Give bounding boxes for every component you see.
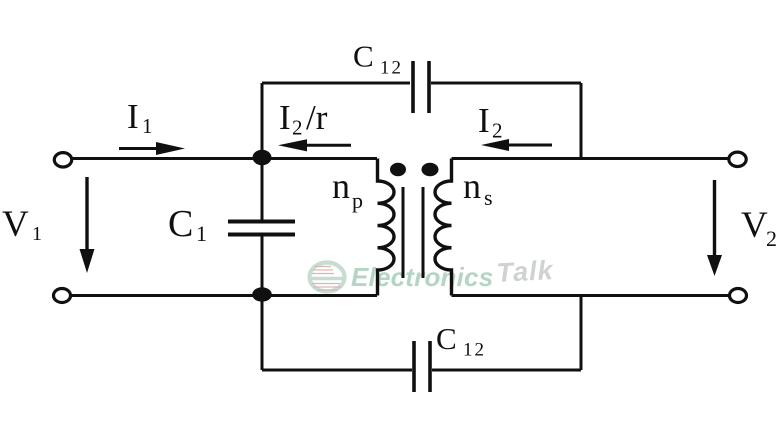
wire top-left rail xyxy=(72,157,377,160)
svg-text:2: 2 xyxy=(766,226,777,251)
wire right drop from C12 top xyxy=(580,83,583,159)
node junction bottom xyxy=(252,287,272,301)
svg-text:I: I xyxy=(279,98,291,137)
wire bottom-right rail xyxy=(452,294,729,297)
svg-text:/r: /r xyxy=(306,98,328,137)
polarity dot secondary xyxy=(422,163,439,176)
wire C1 bottom lead xyxy=(261,236,264,296)
svg-text:I: I xyxy=(127,97,139,136)
arrow I2 xyxy=(481,139,552,151)
wire right riser from C12 bottom xyxy=(580,296,583,371)
svg-text:I: I xyxy=(478,101,490,140)
terminal top-left xyxy=(54,153,71,167)
terminal bottom-right xyxy=(730,289,747,303)
svg-text:1: 1 xyxy=(142,114,153,138)
svg-text:1: 1 xyxy=(196,221,207,246)
capacitor C1 plates xyxy=(228,222,295,235)
arrow I2/r xyxy=(278,139,351,151)
arrow V2 xyxy=(707,180,722,276)
svg-text:p: p xyxy=(352,188,363,213)
wire C12-top right lead xyxy=(431,82,581,85)
node junction top xyxy=(253,150,272,165)
terminal top-right xyxy=(729,152,746,166)
svg-text:n: n xyxy=(463,166,481,206)
wire junction riser to C12 top xyxy=(261,83,264,159)
watermark logo e xyxy=(310,263,346,292)
wire C12-top left lead xyxy=(262,82,410,85)
svg-text:Talk: Talk xyxy=(496,255,555,288)
transformer core xyxy=(403,187,423,278)
svg-text:1: 1 xyxy=(32,223,42,245)
wire C12-bottom left lead xyxy=(262,369,412,372)
svg-text:2: 2 xyxy=(292,116,303,140)
arrow I1 xyxy=(119,142,185,155)
svg-text:n: n xyxy=(332,166,350,206)
arrow V1 xyxy=(80,177,95,273)
svg-text:V: V xyxy=(2,204,29,245)
capacitor C12 top plates xyxy=(413,61,429,113)
svg-text:12: 12 xyxy=(463,340,486,361)
wire bottom-left rail xyxy=(72,294,377,297)
wire junction dropper to C12 bottom xyxy=(261,295,264,371)
svg-text:12: 12 xyxy=(380,58,403,79)
svg-text:C: C xyxy=(168,203,193,245)
wire C1 top lead xyxy=(261,159,264,222)
polarity dot primary xyxy=(390,163,406,176)
capacitor C12 bottom plates xyxy=(414,341,430,392)
wire top-right rail xyxy=(452,157,729,160)
wire C12-bottom right lead xyxy=(432,369,581,372)
svg-text:C: C xyxy=(436,321,457,356)
transformer secondary winding ns xyxy=(435,159,451,296)
svg-text:C: C xyxy=(353,39,374,74)
transformer primary winding np xyxy=(378,159,395,296)
svg-text:V: V xyxy=(741,205,768,246)
svg-text:s: s xyxy=(484,185,493,210)
terminal bottom-left xyxy=(54,289,71,303)
svg-text:2: 2 xyxy=(492,119,503,143)
